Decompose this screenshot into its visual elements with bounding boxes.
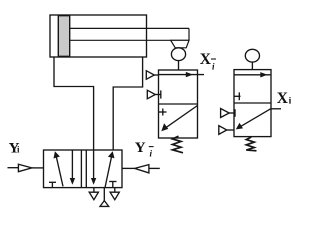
wire: cylinder left port to valve [54,57,94,150]
svg-text:i: i [289,97,292,107]
V1 exhaust triangle left [93,188,95,193]
valve U3 spring [246,137,256,151]
valve U2 top flow arrow [159,74,205,76]
valve U3 divider [234,102,271,104]
svg-text:Y: Y [135,140,146,156]
valve U2 spring [173,136,184,153]
V1 pilot right [122,167,135,169]
roller U2 (middle valve) [171,48,185,61]
svg-text:X: X [277,90,289,107]
valve U3 supply triangle [221,109,230,118]
valve U3 bottom diagonal arrow [238,109,272,129]
valve U3 blocked port T top [234,95,241,97]
valve U2 divider [159,103,198,105]
cylinder body [50,15,147,57]
valve U2 supply triangle [146,71,154,80]
V1 exhaust triangle right [114,188,116,193]
svg-text:X: X [200,51,212,68]
V1 pilot left [8,167,19,169]
V1 left cell blocked T [49,181,56,183]
svg-text:i: i [150,149,153,159]
main valve V1 body [44,150,123,188]
valve U2 body [159,70,198,138]
valve U3 output stub [271,108,281,110]
V1 divider double line [80,150,82,188]
valve U2 blocked exhaust port [147,90,155,99]
svg-text:i: i [17,145,20,155]
valve U3 body [234,70,271,137]
valve U3 exhaust triangle [219,126,227,135]
piston [58,16,69,57]
V1 left cell down arrow [71,150,73,183]
V1 right cell blocked T [109,181,116,183]
piston rod [70,28,189,40]
V1 right cell down arrow [93,150,95,183]
valve U2 blocked port T [159,111,167,113]
valve U2 bottom diagonal arrow [163,106,198,131]
valve U3 top flow arrow [234,74,271,76]
V1 left cell diagonal arrow [56,154,63,187]
roller U3 (right valve) [245,49,259,62]
wire: cylinder right port to valve [113,57,142,150]
svg-text:i: i [212,62,215,72]
roller stem [178,61,180,70]
cam shoe [171,40,189,48]
roller stem [251,63,253,70]
V1 supply triangle [103,188,105,201]
V1 right cell diagonal arrow [105,154,112,188]
